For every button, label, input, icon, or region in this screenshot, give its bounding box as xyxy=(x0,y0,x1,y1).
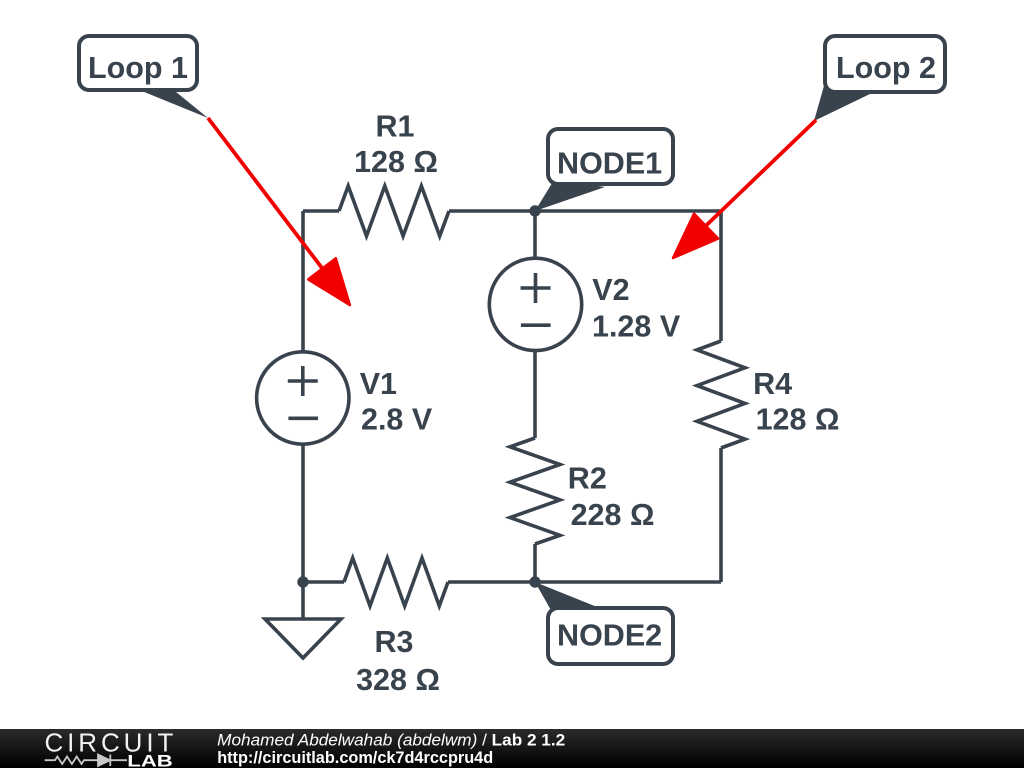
svg-text:V1: V1 xyxy=(360,367,397,401)
svg-text:V2: V2 xyxy=(592,273,629,307)
footer bar xyxy=(0,729,1024,768)
svg-text:328 Ω: 328 Ω xyxy=(356,663,440,697)
svg-text:R3: R3 xyxy=(375,625,414,659)
svg-text:Mohamed Abdelwahab (abdelwm) /: Mohamed Abdelwahab (abdelwm) / Lab 2 1.2 xyxy=(217,731,565,750)
resistor R2 xyxy=(510,438,560,544)
node NODE2 callout xyxy=(535,582,673,664)
wire right lower xyxy=(719,448,723,582)
svg-text:Loop 1: Loop 1 xyxy=(88,51,188,85)
svg-text:128 Ω: 128 Ω xyxy=(756,403,840,437)
footer logo resistor-diode line xyxy=(45,755,127,767)
voltage source V1 xyxy=(257,352,349,444)
wire middle lower xyxy=(533,544,537,582)
svg-text:R1: R1 xyxy=(376,110,415,144)
ground xyxy=(265,582,341,658)
svg-text:http://circuitlab.com/ck7d4rcc: http://circuitlab.com/ck7d4rccpru4d xyxy=(217,748,493,767)
R4 value label xyxy=(753,367,839,437)
wire bottom-right segment xyxy=(448,580,721,584)
svg-text:128 Ω: 128 Ω xyxy=(354,145,438,179)
node NODE2 junction dot xyxy=(529,576,540,587)
R2 value label xyxy=(568,461,655,532)
resistor R3 xyxy=(344,558,448,606)
V1 value label xyxy=(360,367,433,437)
wire left upper xyxy=(301,211,305,351)
svg-text:Loop 2: Loop 2 xyxy=(836,51,936,85)
R1 value label xyxy=(354,110,438,179)
node bottom-left junction dot xyxy=(297,576,308,587)
red arrow Loop 1 xyxy=(208,118,350,305)
voltage source V2 xyxy=(489,258,581,350)
wire middle mid xyxy=(533,351,537,438)
wire right upper xyxy=(719,211,723,341)
wire top-left segment xyxy=(303,209,339,213)
svg-text:NODE1: NODE1 xyxy=(557,146,662,180)
red arrow Loop 2 xyxy=(673,120,816,258)
svg-text:2.8 V: 2.8 V xyxy=(361,402,433,436)
resistor R4 xyxy=(697,341,745,448)
node NODE1 junction dot xyxy=(529,205,540,216)
svg-text:NODE2: NODE2 xyxy=(557,619,662,653)
V2 value label xyxy=(592,273,681,344)
wire top-right segment xyxy=(449,209,721,213)
R3 value label xyxy=(356,625,440,697)
svg-text:1.28 V: 1.28 V xyxy=(592,310,681,344)
node NODE1 callout xyxy=(535,129,673,211)
svg-text:228 Ω: 228 Ω xyxy=(571,498,655,532)
resistor R1 xyxy=(339,186,449,236)
Loop 2 callout xyxy=(814,36,945,121)
svg-text:LAB: LAB xyxy=(127,751,173,768)
wire left lower xyxy=(301,445,305,582)
svg-text:R2: R2 xyxy=(568,461,607,495)
Loop 1 callout xyxy=(79,36,208,118)
svg-text:R4: R4 xyxy=(753,367,792,401)
wire middle upper xyxy=(533,211,537,257)
wire bottom-left segment xyxy=(303,580,344,584)
